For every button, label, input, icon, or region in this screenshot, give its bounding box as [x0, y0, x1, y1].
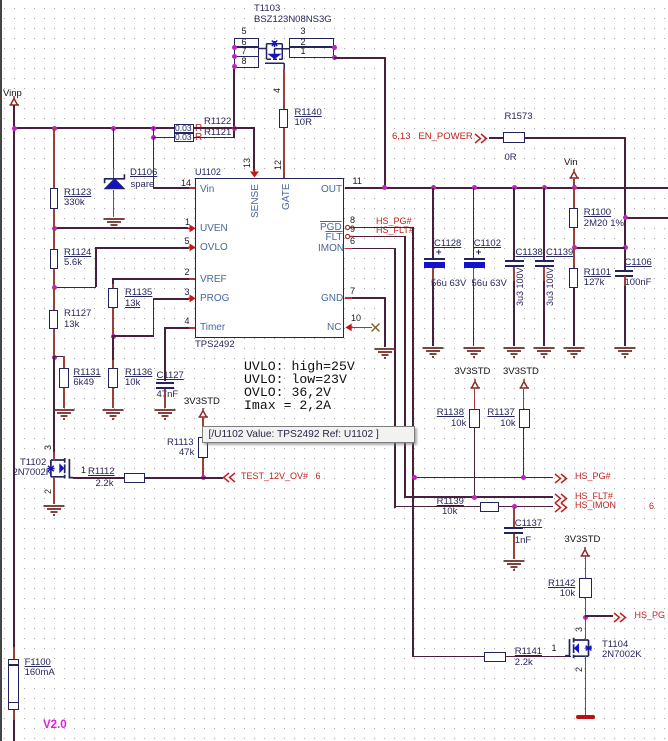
lead UVEN node to R1124 — [53, 229, 55, 249]
wire pin8 horizontal — [353, 227, 414, 229]
lead 3V3STD to R1113 — [202, 417, 204, 438]
wire pin9 vertical — [404, 236, 406, 498]
lead R1142 bottom — [585, 598, 587, 617]
resistor R1131 — [59, 368, 69, 388]
wire pin7 horizontal — [352, 297, 386, 299]
port EN_POWER chevrons — [474, 133, 488, 144]
wire EN_POWER vertical — [624, 137, 626, 270]
pin number 3 T1102 — [44, 445, 54, 450]
wire Vinp rail lower — [13, 710, 15, 721]
wire HS_PG out — [585, 615, 613, 617]
pin number 5 — [242, 27, 247, 37]
diode D1106 lead top — [113, 128, 115, 170]
node junction right edge wire — [623, 215, 628, 220]
lead chain to R1127 — [53, 288, 55, 310]
resistor R1140 — [279, 109, 288, 128]
node junction C1102 — [472, 185, 477, 190]
port HS_FLT# chevrons — [554, 493, 568, 504]
wire PROG vertical — [153, 298, 155, 337]
resistor R1123 — [50, 188, 59, 209]
wire R1135 to R1136 — [112, 336, 114, 361]
port 3V3STD (R1142) label — [565, 535, 601, 545]
resistor R1100 — [569, 208, 578, 228]
node junction R1138 row — [472, 495, 477, 500]
lead bus to R1100 — [573, 188, 575, 209]
pin number 6 — [242, 38, 247, 48]
wire UVEN — [53, 227, 188, 229]
node junction bus-R1123 — [52, 126, 57, 131]
node junction bus-D1106 — [111, 126, 116, 131]
net label HS_PG — [635, 611, 666, 621]
wire PROG horizontal — [153, 298, 189, 300]
node junction pin8 — [232, 64, 237, 69]
pin number 1 T1104 — [552, 644, 557, 654]
port 3V3STD (R1142) symbol — [579, 547, 592, 557]
pin number 2 T1102 — [44, 489, 54, 494]
node junction UVEN-chain — [52, 226, 57, 231]
port Vin label — [564, 158, 578, 168]
U1102 ref label — [195, 168, 221, 178]
resistor R1121 — [174, 133, 194, 142]
resistor R1101 — [569, 268, 578, 288]
pin 2 VREF — [189, 278, 195, 280]
transistor T1103 mosfet symbol — [258, 38, 292, 70]
pin number 3 — [301, 27, 306, 37]
lead R1140 to GATE — [283, 128, 285, 178]
capacitor C1106 — [625, 258, 652, 268]
fuse F1100 — [8, 659, 19, 710]
ground under C1128 — [422, 346, 444, 358]
no-connect X pin10 — [371, 323, 380, 332]
resistor R1136 — [108, 368, 118, 388]
wire pin7 vertical — [384, 297, 386, 347]
tooltip box — [202, 426, 415, 443]
pin 11 OUT — [345, 187, 353, 189]
node junction C1139 — [542, 185, 547, 190]
net label HS_FLT# (at pin) — [376, 226, 414, 236]
net label TEST_12V_OV# — [241, 472, 321, 482]
lead R1100 bottom — [573, 228, 575, 248]
op-amp U1102 box — [195, 178, 345, 339]
capacitor C1138 — [513, 188, 515, 261]
pin 3 PROG — [188, 294, 196, 303]
pin number 8 — [242, 57, 247, 67]
lead T1104 source — [585, 656, 587, 715]
net label HS_FLT# — [575, 492, 613, 502]
capacitor C1128 — [432, 188, 434, 259]
wire to right edge (row 217) — [624, 217, 668, 219]
port Vinp label — [3, 89, 22, 99]
wire T1103 source column — [233, 68, 235, 138]
node junction R1113-TEST — [201, 475, 206, 480]
frame left edge — [0, 0, 2, 741]
node junction Vin-R1100 — [572, 185, 577, 190]
resistor R1113 — [198, 437, 209, 458]
lead R1127 to node — [53, 329, 55, 357]
port 3V3STD (R1137) label — [503, 367, 539, 377]
net label HS_IMON — [575, 501, 616, 511]
lead T1102 drain — [53, 452, 55, 461]
port 3V3STD (R1138) label — [455, 367, 491, 377]
transistor T1103 left box — [234, 38, 259, 69]
resistor R1141 — [484, 652, 506, 662]
lead T1102 source to ground — [53, 477, 55, 504]
resistor R1142 — [579, 578, 592, 598]
pin number 2 — [301, 38, 306, 48]
transistor T1104 — [565, 631, 597, 663]
node junction jog-lower — [151, 135, 156, 140]
lead R1131 to ground — [63, 388, 65, 408]
node junction R1100 link — [623, 245, 628, 250]
resistor R1138 — [469, 409, 480, 429]
pin number 1 R1112 — [81, 466, 86, 476]
wire Timer vertical to C1127 — [164, 327, 166, 381]
U1102 value label — [195, 340, 235, 350]
lead R1123 to UVEN node — [53, 209, 55, 228]
wire OUT bus — [345, 187, 668, 189]
wire pin6 vertical — [394, 248, 396, 508]
node junction C1138 — [512, 185, 517, 190]
port 3V3STD (R1137) symbol — [518, 379, 531, 389]
capacitor C1137 — [513, 507, 515, 527]
ground under C1127 — [154, 408, 176, 420]
wire R1131 branch — [53, 356, 64, 358]
ground under R1136 — [102, 408, 124, 420]
port 3V3STD (R1113) symbol — [197, 408, 210, 418]
text UVLO block — [244, 360, 355, 412]
node junction R1137 row — [521, 475, 526, 480]
ground pin7 — [374, 347, 396, 359]
pin 4 Timer — [189, 327, 195, 329]
node junction bus-rail — [12, 126, 17, 131]
lead R1101 top — [573, 248, 575, 269]
wire HS_IMON row right — [498, 506, 553, 508]
wire SENSE link — [233, 127, 255, 129]
lead R1124 to OVLO node — [53, 269, 55, 288]
ground under T1102 — [43, 504, 65, 516]
lead 3V3STD to R1137 — [523, 389, 525, 410]
wire pin6 horizontal — [352, 248, 396, 250]
node junction pin7 — [232, 54, 237, 59]
wire HS_IMON row left — [394, 506, 480, 508]
lead R1113 bottom — [202, 458, 204, 477]
node junction pin1 — [332, 55, 337, 60]
wire T1103 drain down to OUT — [384, 57, 386, 189]
lead T1104 drain — [585, 617, 587, 641]
net label EN_POWER — [392, 132, 473, 142]
net label HS_PG# — [575, 472, 611, 482]
ground under R1101 — [563, 346, 585, 358]
lead 3V3STD to R1138 — [474, 389, 476, 410]
lead 3V3STD to R1142 — [585, 556, 587, 578]
diode D1106 lead bottom — [113, 190, 115, 217]
wire Timer horizontal — [164, 327, 190, 329]
pin 5 OVLO — [188, 243, 196, 252]
resistor R1137 — [519, 409, 530, 429]
pin 8 PGD — [345, 224, 354, 231]
transistor T1103 right box — [289, 38, 334, 58]
port HS_IMON chevrons — [554, 502, 568, 513]
node junction pin6 — [232, 45, 237, 50]
wire sense jog — [153, 127, 155, 138]
pin 14 Vin — [189, 187, 195, 189]
pin number 3 T1104 — [575, 627, 585, 632]
node junction C1137 — [512, 504, 517, 509]
wire Vin pin14 vertical — [153, 137, 155, 188]
pin 7 GND — [345, 297, 353, 299]
port HS_PG# chevrons — [554, 473, 568, 484]
wire Vin pin14 horizontal — [153, 187, 190, 189]
wire OVLO horizontal — [95, 247, 189, 249]
pin number 2 T1104 — [575, 667, 585, 672]
wire chain to T1102 — [53, 357, 55, 457]
node junction R1131 — [52, 355, 57, 360]
ground under C1139 — [533, 346, 555, 358]
lead pin4 to R1140 — [283, 69, 285, 110]
resistor R1127 — [49, 310, 59, 330]
lead Vin port to bus — [573, 179, 575, 189]
resistor chain lead bus to R1123 — [53, 128, 55, 188]
wire R1121 right — [194, 137, 235, 139]
node junction pin8 row — [412, 475, 417, 480]
wire OVLO vertical — [95, 247, 97, 287]
pin 12 GATE — [274, 159, 284, 169]
ground under D1106 — [103, 217, 125, 229]
ground bar under T1104 — [576, 715, 595, 720]
wire top bus — [13, 127, 174, 129]
pin 6 IMON — [345, 248, 353, 250]
ground under C1137 — [503, 559, 525, 571]
port Vinp symbol — [8, 96, 21, 106]
wire T1103 drain out — [334, 57, 385, 59]
wire SENSE vertical — [253, 127, 255, 171]
lead R1136 to ground — [112, 388, 114, 408]
port 3V3STD (R1138) symbol — [469, 379, 482, 389]
net label HS_PG# (at pin) — [376, 217, 412, 227]
pin arrow SENSE — [249, 169, 260, 178]
wire R1141 to T1104 gate — [506, 656, 571, 658]
node junction C1128 — [431, 185, 436, 190]
wire HS_PG# row — [412, 477, 553, 479]
node junction sense-T1103 — [232, 126, 237, 131]
pin number 7 — [242, 47, 247, 57]
port HS_PG chevrons — [613, 612, 627, 623]
ground under R1131 — [53, 408, 75, 420]
pin number 4 label — [273, 88, 283, 93]
node junction R1135-PROG — [111, 334, 116, 339]
wire R1573 to vertical — [525, 137, 626, 139]
node junction OUT-T1103 — [382, 185, 387, 190]
node junction pin2 — [332, 45, 337, 50]
wire OVLO bottom link — [53, 287, 96, 289]
wire R1137 down to HS_PG row — [523, 428, 525, 478]
text V2.0 — [43, 719, 67, 732]
pin 10 NC — [345, 323, 354, 332]
wire Vinp rail upper — [13, 105, 15, 648]
wire VREF vertical to R1135 — [112, 278, 114, 285]
wire R1112 to TEST port — [145, 477, 223, 479]
resistor R1573 — [503, 132, 525, 144]
transistor T1103 label — [254, 4, 280, 14]
resistor R1112 — [124, 473, 145, 483]
ground under C1102 — [463, 346, 485, 358]
resistor R1122 — [174, 124, 194, 133]
node junction R1100-R1101 — [572, 245, 577, 250]
capacitor C1102 — [473, 188, 475, 259]
wire PROG link horizontal — [112, 335, 154, 337]
transistor T1102 — [44, 452, 76, 484]
node junction bus-sense — [151, 126, 156, 131]
node junction OVLO-chain — [52, 285, 57, 290]
pin number 1 — [301, 47, 306, 57]
wire lower sense — [153, 137, 175, 139]
diode D1106 — [103, 172, 126, 190]
lead C1127 to ground — [164, 389, 166, 409]
ground under C1138 — [503, 346, 525, 358]
pin 1 UVEN — [188, 224, 196, 233]
wire pin9 horizontal — [353, 236, 406, 238]
wire R1100 link — [573, 247, 625, 249]
wire HS_PG# down-left to R1141 — [412, 656, 484, 658]
resistor R1124 — [50, 249, 59, 269]
wire R1122 right — [194, 127, 235, 129]
wire R1138 down to HS_FLT row — [474, 428, 476, 498]
capacitor C1127 — [156, 382, 174, 384]
capacitor C1139 — [543, 188, 545, 261]
wire VREF horizontal — [112, 278, 189, 280]
resistor R1135 — [108, 288, 118, 308]
lead R1101 to ground — [573, 288, 575, 346]
wire T1102 gate to R1112 — [73, 477, 125, 479]
port 3V3STD (R1113) label — [184, 397, 220, 407]
wire HS_FLT# row — [404, 496, 553, 498]
port TEST_12V_OV# chevrons — [222, 472, 236, 483]
ground under C1106 — [614, 346, 636, 358]
node junction HS_PG out — [583, 615, 588, 620]
wire pin8 vertical — [412, 227, 414, 658]
pin 9 FLT — [345, 233, 354, 240]
port Vin symbol — [568, 169, 581, 179]
lead R1135 bottom — [112, 308, 114, 336]
wire EN_POWER to R1573 — [489, 137, 504, 139]
pin 13 SENSE — [243, 157, 253, 167]
resistor R1139 — [480, 502, 499, 512]
